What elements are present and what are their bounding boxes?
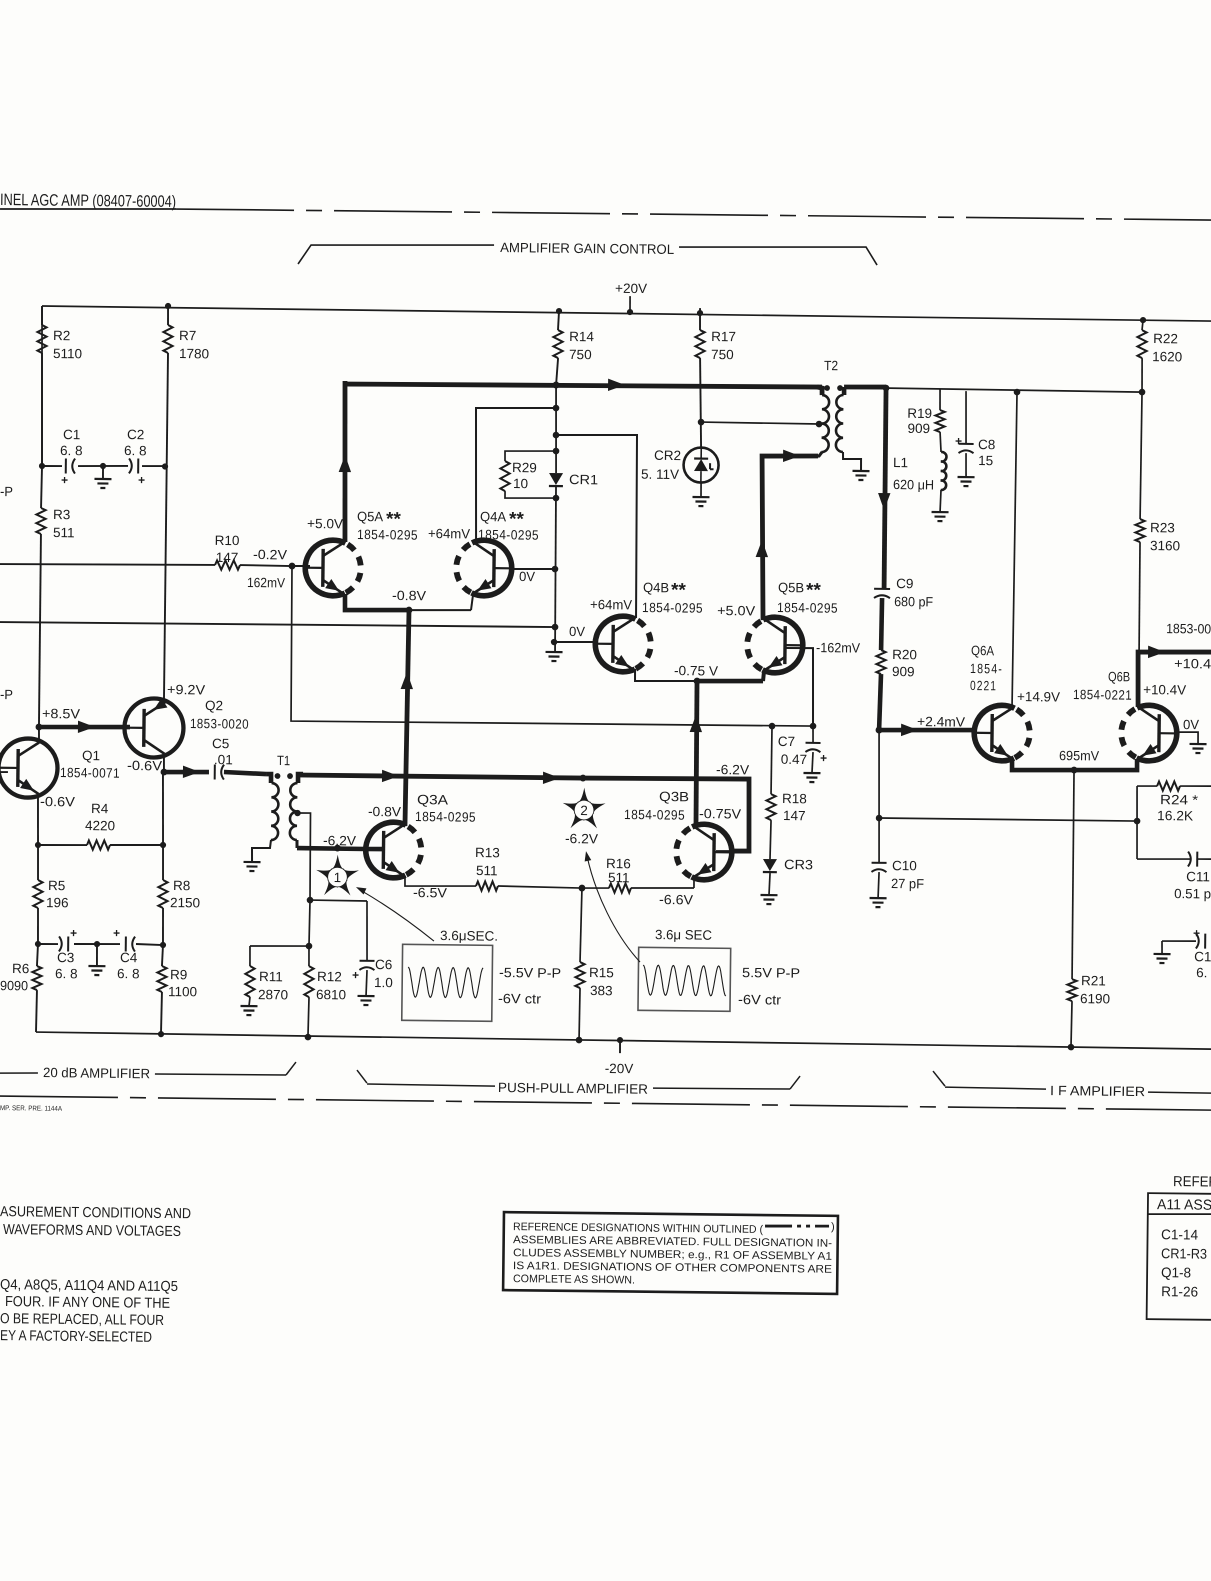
svg-text:R1-26: R1-26	[1161, 1283, 1198, 1299]
wire T2 top to R22 column	[886, 388, 1143, 392]
svg-text:R17: R17	[711, 329, 736, 344]
svg-text:R14: R14	[569, 329, 594, 344]
wire +20V rail	[42, 306, 1211, 321]
voltage label 0V at Q4B	[569, 624, 585, 639]
wire CR1 cathode down	[554, 487, 557, 651]
svg-text:2870: 2870	[258, 987, 288, 1002]
svg-text:1853-0020: 1853-0020	[190, 716, 249, 732]
resistor R12	[304, 946, 347, 1037]
svg-text:AMPLIFIER GAIN CONTROL: AMPLIFIER GAIN CONTROL	[500, 240, 675, 257]
transistor Q5A	[303, 540, 361, 596]
resistor R7	[159, 306, 209, 700]
wire -20V rail	[36, 1032, 1211, 1049]
resistor R2	[36, 306, 83, 466]
svg-text:10: 10	[513, 476, 528, 491]
voltage label 0V at Q6B	[1183, 717, 1199, 732]
wire Q4B base	[554, 641, 596, 644]
ground Q4B base line	[545, 652, 562, 661]
section divider PUSH-PULL AMPLIFIER	[357, 1070, 800, 1098]
note text matched set	[0, 1277, 178, 1346]
resistor R29	[500, 450, 556, 498]
voltage label +5.0V at Q5A	[307, 516, 343, 531]
resistor R6	[0, 944, 42, 1033]
wire T2 secondary top (bold)	[844, 384, 886, 390]
svg-text:5. 11V: 5. 11V	[641, 467, 679, 482]
svg-text:WAVEFORMS AND VOLTAGES: WAVEFORMS AND VOLTAGES	[3, 1222, 181, 1240]
node star1 junction	[334, 845, 341, 852]
voltage label +64mV at Q4B	[590, 597, 632, 612]
svg-text:+20V: +20V	[615, 281, 647, 296]
capacitor C10	[871, 818, 925, 891]
svg-text:ASUREMENT CONDITIONS AND: ASUREMENT CONDITIONS AND	[0, 1204, 191, 1222]
wire R11 branch	[250, 945, 309, 946]
voltage label +14.9V	[1017, 689, 1060, 704]
node R4 left	[35, 842, 41, 848]
node Q4B collector branch	[553, 432, 560, 439]
svg-text:-5.5V P-P: -5.5V P-P	[499, 965, 561, 981]
voltage label -0.6V at Q1 emitter	[40, 794, 75, 809]
svg-text:6. 8: 6. 8	[124, 443, 147, 458]
wire Q6B collector bold out	[1137, 646, 1211, 708]
resistor R13	[475, 845, 583, 892]
voltage label +64mV at Q4A	[428, 526, 470, 541]
wire Q5A base	[292, 565, 310, 567]
svg-text:**: **	[806, 580, 822, 601]
svg-text:R12: R12	[317, 969, 342, 984]
node T2 secondary/L1 junction	[883, 385, 890, 392]
svg-text:1854-0295: 1854-0295	[624, 807, 685, 823]
section label AMPLIFIER GAIN CONTROL	[298, 238, 877, 271]
transformer T2 primary	[811, 387, 829, 456]
wire L1 feed bold vertical	[877, 387, 892, 588]
resistor R22	[1137, 320, 1183, 393]
svg-text:9090: 9090	[0, 978, 28, 993]
wire Q1 collector to +8.5V node	[35, 724, 42, 741]
voltage label 695mV	[1059, 748, 1099, 763]
svg-text:6. 8: 6. 8	[55, 966, 78, 981]
svg-text:1854-: 1854-	[970, 661, 1003, 676]
svg-text:6810: 6810	[316, 987, 346, 1002]
transformer T1 label	[277, 753, 290, 768]
transformer T1 phasing dots	[275, 773, 293, 779]
svg-text:+8.5V: +8.5V	[42, 706, 80, 721]
node R21 bottom	[1068, 1044, 1075, 1051]
svg-text:0221: 0221	[970, 678, 997, 693]
svg-text:EY A FACTORY-SELECTED: EY A FACTORY-SELECTED	[0, 1328, 152, 1346]
note text measurement conditions	[0, 1204, 191, 1240]
voltage label -6.6V	[659, 892, 693, 907]
svg-text:909: 909	[892, 664, 915, 679]
svg-text:CR1-R3: CR1-R3	[1161, 1245, 1207, 1262]
voltage label -0.75V at Q3B	[699, 806, 741, 821]
label Q3A refdes	[415, 792, 476, 825]
svg-text:R13: R13	[475, 845, 500, 860]
svg-text:R8: R8	[173, 878, 190, 893]
svg-text:L1: L1	[893, 455, 908, 470]
svg-text:C1: C1	[63, 427, 80, 442]
resistor R9	[157, 945, 198, 1035]
svg-text:R6: R6	[12, 961, 29, 976]
diode CR1	[549, 472, 598, 488]
capacitor C3	[55, 926, 78, 981]
voltage label -0.6V at Q2	[127, 758, 162, 773]
svg-text:O BE REPLACED, ALL FOUR: O BE REPLACED, ALL FOUR	[0, 1311, 164, 1329]
wire Q4A collector loop	[474, 407, 556, 545]
node C1 junction	[39, 463, 45, 469]
wire C6 branch	[309, 900, 367, 960]
resistor R15	[575, 888, 615, 1040]
svg-text:1854-0071: 1854-0071	[60, 765, 120, 781]
transistor Q3B	[676, 824, 734, 880]
resistor R18	[766, 726, 808, 859]
svg-text:5110: 5110	[53, 346, 82, 361]
svg-text:INEL AGC AMP (08407-60004): INEL AGC AMP (08407-60004)	[0, 191, 176, 211]
svg-text:1780: 1780	[179, 346, 209, 361]
wire CR3 to ground	[769, 873, 770, 895]
capacitor C6	[352, 957, 393, 990]
node R17 top	[697, 310, 703, 316]
section divider IF AMPLIFIER	[933, 1071, 1211, 1100]
svg-text:4220: 4220	[85, 818, 115, 833]
voltage label -0.2V	[253, 547, 287, 562]
inductor L1	[893, 451, 947, 512]
node R13/R16 junction	[579, 885, 586, 892]
transformer T2 secondary	[836, 387, 862, 471]
wire Q1 emitter down	[37, 796, 38, 845]
wire CR1 node to Q4B collector	[554, 434, 638, 618]
svg-text:750: 750	[569, 347, 592, 362]
title text AGC AMP assembly	[0, 191, 176, 211]
svg-text:3.6μSEC.: 3.6μSEC.	[440, 928, 498, 944]
node Q4A collector junction	[553, 405, 560, 412]
svg-text:R23: R23	[1150, 520, 1175, 535]
wire Q5B base	[784, 648, 814, 726]
svg-text:20 dB AMPLIFIER: 20 dB AMPLIFIER	[43, 1065, 150, 1081]
svg-text:Q5A: Q5A	[357, 509, 383, 524]
wire bias tap to R12	[306, 897, 313, 946]
svg-text:750: 750	[711, 347, 734, 362]
svg-text:R4: R4	[91, 801, 109, 816]
svg-text:C8: C8	[978, 437, 995, 452]
voltage label -0.8V at Q3A	[368, 804, 401, 819]
voltage label +2.4mV	[917, 714, 965, 730]
resistor R3	[34, 466, 75, 727]
svg-text:1: 1	[334, 870, 342, 885]
capacitor C12 (cut)	[1162, 926, 1211, 981]
wire Q6 emitters	[1012, 758, 1137, 772]
svg-text:6190: 6190	[1080, 991, 1110, 1006]
node R15 bottom	[576, 1037, 583, 1044]
transformer T1 center tap	[293, 810, 311, 900]
node -20V supply	[605, 1037, 634, 1076]
node Q4A base junction	[552, 566, 559, 573]
svg-text:3160: 3160	[1150, 538, 1180, 553]
svg-text:511: 511	[608, 870, 630, 885]
test point star 1	[316, 854, 359, 895]
ground T1 primary	[243, 862, 260, 871]
wire Q5B collector bold to T2	[755, 449, 818, 620]
capacitor C9	[874, 576, 934, 610]
svg-text:-0.8V: -0.8V	[368, 804, 401, 819]
voltage label +8.5V	[42, 706, 80, 721]
svg-text:16.2K: 16.2K	[1157, 808, 1193, 823]
svg-text:-0.6V: -0.6V	[127, 758, 162, 773]
svg-text:680 pF: 680 pF	[894, 594, 933, 609]
resistor R16	[582, 856, 694, 894]
svg-text:I F AMPLIFIER: I F AMPLIFIER	[1050, 1083, 1145, 1099]
svg-text:+10.4V: +10.4V	[1143, 682, 1186, 697]
resistor R5	[33, 845, 70, 944]
svg-text:0V: 0V	[519, 569, 535, 584]
waveform box 2	[638, 927, 801, 1012]
svg-text:+: +	[352, 968, 359, 982]
svg-text:Q4, A8Q5, A11Q4 AND A11Q5: Q4, A8Q5, A11Q4 AND A11Q5	[0, 1277, 178, 1295]
svg-text:695mV: 695mV	[1059, 748, 1099, 763]
resistor R11	[245, 946, 289, 1007]
ground R11	[240, 1006, 257, 1015]
node +20V supply	[615, 281, 647, 316]
resistor R20	[876, 647, 917, 731]
ground T2 secondary	[852, 471, 869, 480]
svg-text:511: 511	[476, 863, 498, 878]
svg-text:C4: C4	[120, 950, 138, 965]
node C7 junction	[810, 723, 817, 730]
node R14 top	[556, 308, 562, 314]
leader arrow to star 1	[355, 887, 434, 941]
svg-text:**: **	[671, 580, 687, 601]
svg-text:+: +	[1193, 926, 1200, 940]
svg-text:+5.0V: +5.0V	[717, 603, 755, 618]
wire CR2 cathode to ground	[700, 483, 702, 497]
node R18 junction	[769, 723, 776, 730]
resistor R19	[907, 389, 945, 452]
svg-text:1854-0295: 1854-0295	[357, 527, 418, 543]
svg-text:R19: R19	[907, 406, 932, 421]
wire T1 secondary bottom -6.2V (bold)	[297, 846, 366, 852]
svg-text:6. 8: 6. 8	[60, 443, 83, 458]
ground C7	[803, 752, 820, 782]
resistor R8	[158, 845, 201, 945]
test point star 2	[562, 787, 605, 828]
node CR2 tap junction	[698, 419, 705, 426]
svg-text:COMPLETE AS SHOWN.: COMPLETE AS SHOWN.	[513, 1273, 635, 1286]
label Q1 refdes	[60, 748, 120, 781]
wire Q5A emitter	[345, 594, 409, 611]
input label P-P lower (cut)	[0, 687, 13, 702]
transistor Q4A	[456, 540, 514, 596]
svg-text:0.51 p: 0.51 p	[1174, 886, 1211, 901]
ground C8	[957, 453, 974, 486]
svg-text:R24 *: R24 *	[1160, 792, 1199, 807]
svg-text:Q1: Q1	[82, 748, 100, 763]
label Q5A refdes	[357, 509, 419, 543]
ground C12	[1153, 954, 1170, 963]
svg-text:-P: -P	[0, 687, 13, 702]
svg-text:-6.6V: -6.6V	[659, 892, 693, 907]
resistor R14	[553, 311, 595, 385]
waveform box 1	[402, 928, 562, 1022]
voltage label 0V at Q4A	[519, 569, 535, 584]
resistor R21	[1067, 770, 1113, 1048]
svg-text:C3: C3	[57, 950, 74, 965]
node R22 top	[1140, 317, 1146, 323]
svg-text:-6.5V: -6.5V	[413, 885, 447, 900]
transformer T1 secondary	[290, 774, 303, 848]
wire Q3B base	[716, 850, 736, 852]
svg-text:R11: R11	[259, 969, 283, 984]
svg-text:196: 196	[46, 895, 69, 910]
svg-text:+5.0V: +5.0V	[307, 516, 343, 531]
svg-text:2150: 2150	[170, 895, 200, 910]
node R29 bottom junction	[553, 495, 560, 502]
node R4 right	[160, 842, 166, 848]
svg-text:CR1: CR1	[569, 472, 598, 487]
voltage label -6.2V at T1	[323, 833, 356, 848]
node R12 bottom	[305, 1034, 312, 1041]
wire Q3A emitter line	[405, 876, 476, 887]
svg-text:0.47: 0.47	[781, 752, 807, 767]
resistor R23	[1134, 392, 1182, 652]
svg-text:15: 15	[978, 453, 993, 468]
reference table (cut)	[1147, 1174, 1211, 1320]
svg-text:Q6A: Q6A	[971, 643, 994, 658]
svg-text:C1: C1	[1194, 949, 1211, 964]
assembly boundary dash-dot line (top)	[176, 208, 1211, 220]
node R29 top junction	[553, 448, 560, 455]
node C3 left	[35, 941, 41, 947]
transistor Q1	[0, 738, 58, 798]
transistor Q6B	[1121, 705, 1179, 761]
svg-text:-6.2V: -6.2V	[716, 762, 749, 777]
node Q5A base node	[289, 563, 296, 570]
svg-text:+10.4: +10.4	[1174, 656, 1211, 671]
svg-text:620 μH: 620 μH	[893, 477, 934, 492]
svg-text:R15: R15	[589, 965, 614, 980]
wire emitter junction to Q5B	[697, 670, 764, 682]
ground C6	[357, 970, 374, 1005]
ground Q6B base	[1189, 744, 1206, 753]
svg-text:PUSH-PULL AMPLIFIER: PUSH-PULL AMPLIFIER	[498, 1080, 648, 1097]
wire Q4A base to CR1 line	[513, 568, 555, 571]
svg-text:+64mV: +64mV	[428, 526, 470, 541]
transformer T2 phasing dots	[824, 385, 843, 391]
svg-text:-162mV: -162mV	[816, 640, 860, 655]
svg-text:-6V ctr: -6V ctr	[738, 992, 782, 1007]
svg-text:A11 ASS: A11 ASS	[1157, 1197, 1211, 1214]
wire Q1 base input	[0, 771, 8, 773]
node AGC/R14 junction	[553, 381, 560, 388]
svg-text:): )	[831, 1221, 835, 1233]
svg-text:6. 8: 6. 8	[117, 966, 140, 981]
transistor Q4B	[593, 616, 651, 672]
svg-text:1620: 1620	[1152, 349, 1182, 364]
wire AGC feedback line	[0, 621, 555, 629]
capacitor C2	[124, 427, 147, 487]
voltage label -0.75V at pair	[674, 663, 718, 678]
svg-text:C6: C6	[375, 957, 392, 972]
svg-text:383: 383	[590, 983, 613, 998]
svg-text:1100: 1100	[168, 984, 197, 999]
wire Q4B emitter line	[635, 669, 697, 682]
wire Q3B collector bold	[689, 681, 703, 825]
svg-text:+: +	[138, 473, 145, 487]
wire left rail upper	[40, 306, 44, 466]
wire bias line to R24	[879, 818, 1137, 821]
svg-text:R18: R18	[782, 791, 807, 806]
svg-text:+: +	[955, 434, 962, 448]
node +2.4mV junction	[876, 726, 883, 733]
wire C5 to T1 primary	[224, 772, 266, 774]
input label P-P (cut)	[0, 484, 13, 499]
svg-text:R29: R29	[512, 460, 537, 475]
svg-text:-0.8V: -0.8V	[392, 588, 426, 603]
transistor Q5B	[747, 617, 805, 673]
label Q7 part number (cut)	[1166, 621, 1211, 637]
svg-text:R2: R2	[53, 328, 70, 343]
svg-text:C2: C2	[127, 427, 144, 442]
svg-text:1854-0295: 1854-0295	[478, 527, 539, 543]
svg-text:C7: C7	[778, 734, 795, 749]
svg-text:R20: R20	[892, 647, 917, 662]
voltage label +5.0V at Q5B	[717, 603, 755, 618]
node signal/star2 junction	[580, 775, 587, 782]
transformer T1 primary	[252, 774, 279, 862]
wire Q2 collector to -0.6V node	[163, 755, 165, 772]
capacitor C1	[60, 427, 83, 487]
wire C1-C2 bias line	[42, 465, 166, 468]
svg-text:-20V: -20V	[605, 1061, 634, 1076]
label Q2 refdes	[190, 698, 249, 732]
svg-text:R10: R10	[215, 533, 240, 548]
wire Q2 collector lead down to R4	[162, 772, 164, 845]
label Q4B refdes	[642, 580, 703, 616]
capacitor C5	[212, 736, 233, 780]
svg-text:+64mV: +64mV	[590, 597, 632, 612]
svg-text:Q4A: Q4A	[480, 509, 506, 524]
svg-text:+14.9V: +14.9V	[1017, 689, 1060, 704]
transistor Q3A	[364, 822, 422, 878]
svg-text:C9: C9	[896, 576, 913, 591]
svg-text:-0.2V: -0.2V	[253, 547, 287, 562]
svg-text:162mV: 162mV	[247, 575, 285, 590]
svg-text:R16: R16	[606, 856, 631, 871]
svg-text:1.0: 1.0	[374, 975, 393, 990]
voltage label +9.2V	[167, 682, 205, 697]
svg-text:-0.6V: -0.6V	[40, 794, 75, 809]
transformer T2 label	[824, 358, 838, 373]
svg-text:27 pF: 27 pF	[891, 876, 924, 891]
voltage label -0.8V upper	[392, 588, 426, 603]
svg-text:147: 147	[783, 808, 806, 823]
node pair B emitter junction	[694, 678, 701, 685]
capacitor C8	[955, 391, 996, 468]
diode CR2 zener	[641, 447, 719, 483]
svg-text:+: +	[113, 926, 120, 940]
wire R20 node down	[878, 730, 880, 818]
svg-text:-0.75 V: -0.75 V	[674, 663, 718, 678]
svg-text:0V: 0V	[569, 624, 585, 639]
ground C10	[869, 872, 886, 907]
wire Q5A base bias line	[290, 566, 815, 727]
wire CR2 to T2 primary tap	[701, 419, 822, 427]
svg-text:R7: R7	[179, 328, 196, 343]
node Q2 output	[161, 769, 168, 776]
node R11 branch	[306, 943, 313, 950]
svg-text:CR2: CR2	[654, 448, 681, 463]
capacitor C11	[1137, 851, 1211, 902]
svg-text:R9: R9	[170, 967, 187, 982]
svg-text:0V: 0V	[1183, 717, 1199, 732]
